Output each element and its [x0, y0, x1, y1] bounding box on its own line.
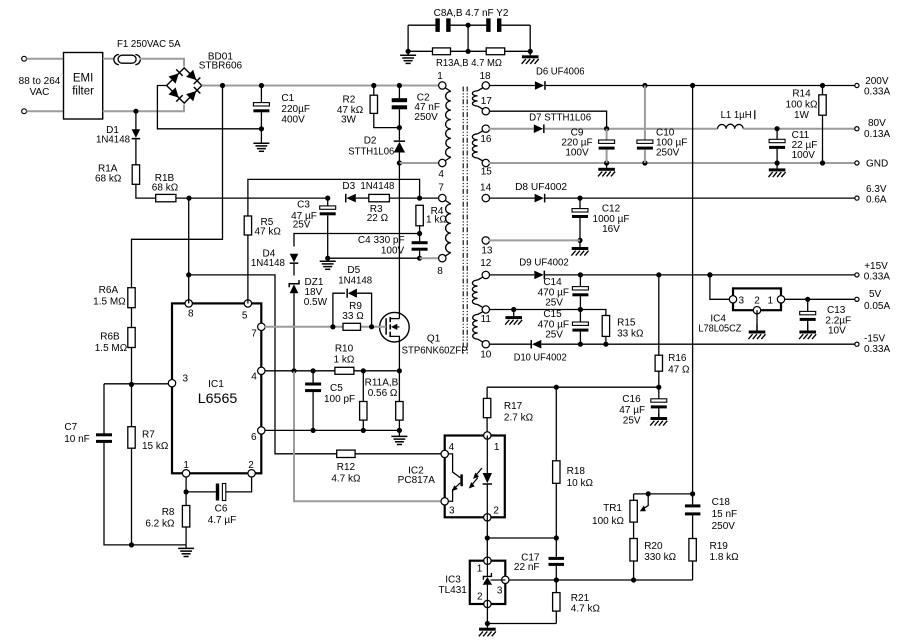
svg-text:F1 250VAC 5A: F1 250VAC 5A — [117, 39, 181, 50]
svg-text:D5: D5 — [347, 265, 360, 276]
svg-text:VAC: VAC — [30, 87, 50, 98]
svg-text:R20: R20 — [644, 541, 663, 552]
svg-text:4: 4 — [438, 169, 444, 180]
svg-text:STP6NK60ZFP: STP6NK60ZFP — [402, 346, 468, 357]
svg-text:D9 UF4002: D9 UF4002 — [519, 258, 569, 269]
svg-text:TR1: TR1 — [603, 503, 622, 514]
svg-text:100V: 100V — [381, 245, 405, 256]
svg-text:1.8 kΩ: 1.8 kΩ — [710, 552, 740, 563]
svg-text:C5: C5 — [330, 383, 343, 394]
svg-text:100 pF: 100 pF — [324, 394, 355, 405]
svg-text:3W: 3W — [341, 115, 357, 126]
svg-text:1 kΩ: 1 kΩ — [426, 215, 447, 226]
svg-text:C3: C3 — [297, 200, 310, 211]
svg-text:80V: 80V — [868, 118, 886, 129]
svg-text:18: 18 — [479, 71, 491, 82]
svg-text:10V: 10V — [828, 326, 846, 337]
svg-text:C1: C1 — [281, 93, 294, 104]
svg-text:10 nF: 10 nF — [64, 434, 90, 445]
svg-text:68 kΩ: 68 kΩ — [95, 174, 122, 185]
svg-text:7: 7 — [251, 329, 257, 340]
svg-text:2: 2 — [493, 506, 499, 517]
svg-text:1: 1 — [183, 460, 189, 471]
svg-text:1N4148: 1N4148 — [96, 135, 130, 146]
svg-text:R18: R18 — [567, 466, 586, 477]
svg-text:PC817A: PC817A — [398, 475, 436, 486]
svg-text:1N4148: 1N4148 — [338, 275, 372, 286]
svg-text:D10 UF4002: D10 UF4002 — [514, 353, 567, 364]
svg-text:L1 1µH: L1 1µH — [721, 110, 752, 121]
svg-text:1.5 MΩ: 1.5 MΩ — [93, 297, 126, 308]
svg-text:4.7 µF: 4.7 µF — [208, 515, 237, 526]
svg-text:STTH1L06: STTH1L06 — [348, 146, 394, 157]
svg-text:250V: 250V — [712, 521, 736, 532]
svg-text:0.33A: 0.33A — [864, 344, 890, 355]
svg-text:1: 1 — [768, 295, 774, 306]
svg-text:1: 1 — [437, 71, 443, 82]
svg-text:25V: 25V — [545, 297, 563, 308]
svg-text:1N4148: 1N4148 — [360, 181, 394, 192]
svg-text:100V: 100V — [565, 148, 589, 159]
svg-text:4: 4 — [449, 442, 455, 453]
svg-text:D3: D3 — [342, 181, 355, 192]
svg-text:C18: C18 — [712, 497, 731, 508]
svg-text:5V: 5V — [869, 289, 882, 300]
svg-text:6: 6 — [251, 432, 257, 443]
svg-text:R16: R16 — [668, 353, 687, 364]
svg-text:R6A: R6A — [99, 285, 119, 296]
svg-text:1W: 1W — [794, 110, 810, 121]
svg-text:R21: R21 — [571, 593, 590, 604]
svg-text:Q1: Q1 — [427, 333, 441, 344]
svg-text:100V: 100V — [792, 150, 816, 161]
svg-text:0.13A: 0.13A — [864, 129, 890, 140]
svg-text:C6: C6 — [215, 504, 228, 515]
svg-text:16: 16 — [480, 134, 492, 145]
svg-text:D6 UF4006: D6 UF4006 — [536, 66, 585, 77]
svg-text:0.33A: 0.33A — [864, 87, 890, 98]
svg-text:IC3: IC3 — [445, 574, 461, 585]
svg-text:D8 UF4002: D8 UF4002 — [515, 182, 567, 193]
svg-text:4.7 kΩ: 4.7 kΩ — [571, 604, 601, 615]
svg-text:47 Ω: 47 Ω — [668, 365, 690, 376]
svg-text:3: 3 — [449, 506, 455, 517]
svg-text:250V: 250V — [656, 148, 680, 159]
svg-text:33 Ω: 33 Ω — [342, 311, 364, 322]
svg-text:L6565: L6565 — [198, 391, 238, 406]
svg-text:0.56 Ω: 0.56 Ω — [368, 388, 398, 399]
svg-text:R19: R19 — [710, 541, 729, 552]
svg-text:0.05A: 0.05A — [864, 301, 890, 312]
svg-text:C13: C13 — [827, 305, 846, 316]
svg-text:10 kΩ: 10 kΩ — [567, 478, 594, 489]
svg-text:15 nF: 15 nF — [712, 509, 738, 520]
svg-text:filter: filter — [72, 86, 94, 98]
svg-text:15 kΩ: 15 kΩ — [142, 441, 169, 452]
svg-text:6.2 kΩ: 6.2 kΩ — [145, 519, 175, 530]
svg-text:17: 17 — [481, 96, 493, 107]
svg-text:68 kΩ: 68 kΩ — [152, 183, 179, 194]
svg-text:1: 1 — [477, 564, 483, 575]
svg-text:GND: GND — [866, 159, 888, 170]
svg-text:200V: 200V — [865, 76, 889, 87]
svg-text:C16: C16 — [622, 394, 641, 405]
svg-text:2: 2 — [477, 592, 483, 603]
svg-text:100 kΩ: 100 kΩ — [786, 100, 818, 111]
svg-text:12: 12 — [480, 258, 492, 269]
svg-text:14: 14 — [480, 183, 492, 194]
svg-text:15: 15 — [481, 167, 493, 178]
svg-text:0.6A: 0.6A — [866, 194, 887, 205]
svg-text:7: 7 — [438, 183, 444, 194]
svg-text:100 kΩ: 100 kΩ — [592, 516, 624, 527]
svg-text:R14: R14 — [792, 89, 811, 100]
svg-text:47 µF: 47 µF — [619, 405, 645, 416]
svg-text:R12: R12 — [337, 462, 356, 473]
svg-text:3: 3 — [497, 586, 503, 597]
svg-text:R2: R2 — [343, 94, 356, 105]
svg-text:2.7 kΩ: 2.7 kΩ — [504, 413, 534, 424]
svg-text:250V: 250V — [414, 112, 438, 123]
svg-text:R6B: R6B — [100, 332, 120, 343]
svg-text:3: 3 — [183, 373, 189, 384]
svg-text:3: 3 — [739, 295, 745, 306]
svg-text:25V: 25V — [623, 416, 641, 427]
svg-text:1 kΩ: 1 kΩ — [334, 355, 355, 366]
svg-text:10: 10 — [480, 350, 492, 361]
svg-text:IC1: IC1 — [208, 379, 224, 390]
svg-text:STBR606: STBR606 — [199, 61, 243, 72]
svg-text:D7 STTH1L06: D7 STTH1L06 — [529, 112, 591, 123]
svg-text:L78L05CZ: L78L05CZ — [698, 324, 741, 335]
svg-text:C12: C12 — [602, 204, 621, 215]
svg-text:330 kΩ: 330 kΩ — [644, 552, 676, 563]
svg-text:+15V: +15V — [864, 261, 888, 272]
svg-text:16V: 16V — [602, 224, 620, 235]
svg-text:0.33A: 0.33A — [864, 272, 890, 283]
svg-text:R13A,B 4.7 MΩ: R13A,B 4.7 MΩ — [436, 58, 502, 69]
svg-text:R15: R15 — [617, 318, 636, 329]
svg-text:8: 8 — [437, 266, 443, 277]
svg-text:R8: R8 — [162, 507, 175, 518]
svg-text:33 kΩ: 33 kΩ — [617, 329, 644, 340]
svg-text:C7: C7 — [64, 422, 77, 433]
svg-text:8: 8 — [188, 309, 194, 320]
svg-text:400V: 400V — [281, 114, 305, 125]
svg-text:25V: 25V — [545, 329, 563, 340]
svg-text:47 kΩ: 47 kΩ — [255, 227, 282, 238]
svg-text:4: 4 — [251, 372, 257, 383]
svg-text:D2: D2 — [364, 135, 377, 146]
svg-text:13: 13 — [481, 246, 493, 257]
svg-text:1N4148: 1N4148 — [251, 258, 285, 269]
svg-text:R17: R17 — [504, 401, 523, 412]
svg-text:25V: 25V — [293, 220, 311, 231]
svg-text:0.5W: 0.5W — [304, 297, 328, 308]
svg-text:R10: R10 — [335, 344, 354, 355]
svg-text:C8A,B 4.7 nF Y2: C8A,B 4.7 nF Y2 — [434, 8, 509, 19]
svg-text:11: 11 — [481, 314, 492, 325]
svg-text:1: 1 — [494, 442, 500, 453]
svg-text:88 to 264: 88 to 264 — [19, 76, 61, 87]
svg-text:-15V: -15V — [864, 334, 885, 345]
svg-text:EMI: EMI — [73, 73, 93, 85]
svg-text:5: 5 — [242, 311, 248, 322]
svg-text:22 Ω: 22 Ω — [367, 213, 389, 224]
svg-text:R7: R7 — [142, 429, 155, 440]
svg-text:2: 2 — [754, 295, 760, 306]
svg-text:TL431: TL431 — [439, 585, 468, 596]
svg-text:1.5 MΩ: 1.5 MΩ — [95, 343, 128, 354]
svg-text:4.7 kΩ: 4.7 kΩ — [331, 474, 361, 485]
svg-text:2: 2 — [248, 460, 254, 471]
svg-text:22 nF: 22 nF — [514, 562, 540, 573]
